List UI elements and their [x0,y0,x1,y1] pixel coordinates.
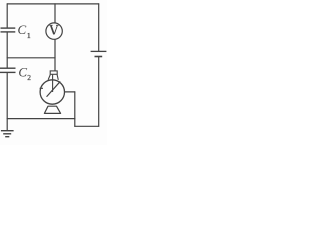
voltmeter V [46,23,62,39]
label C1 [18,22,31,40]
electrometer neck left [48,75,50,80]
battery cell [91,51,107,56]
wire voltmeter bottom lead [54,39,56,71]
wire left vertical lower [6,73,8,130]
wire right vertical lower [98,57,100,126]
svg-text:C: C [18,64,27,79]
wire voltmeter top lead [54,4,56,23]
wire middle horizontal [7,57,55,59]
wire right vertical upper [98,4,100,51]
electrometer needle [47,82,60,97]
capacitor C2 [0,68,16,72]
capacitor C1 [1,28,16,32]
label C2 [18,64,31,82]
electrometer neck right [57,75,58,80]
svg-text:2: 2 [27,73,31,82]
wire top horizontal [7,3,99,5]
ground [1,131,14,137]
svg-text:C: C [18,22,27,37]
electrometer case circle [40,80,64,104]
svg-text:1: 1 [27,31,31,40]
wire middle-right vertical [74,92,76,126]
wire bottom-left horizontal [7,118,75,120]
electrometer base [44,106,60,113]
electrometer [40,71,65,114]
wire left vertical upper [6,4,8,28]
wire electrometer right lead [65,91,75,93]
wire bottom-right horizontal [75,125,99,127]
wire left vertical middle [6,32,8,67]
electrometer left plate tick [40,87,43,89]
electrometer terminal cap [50,71,57,74]
electrometer stem [52,75,54,92]
